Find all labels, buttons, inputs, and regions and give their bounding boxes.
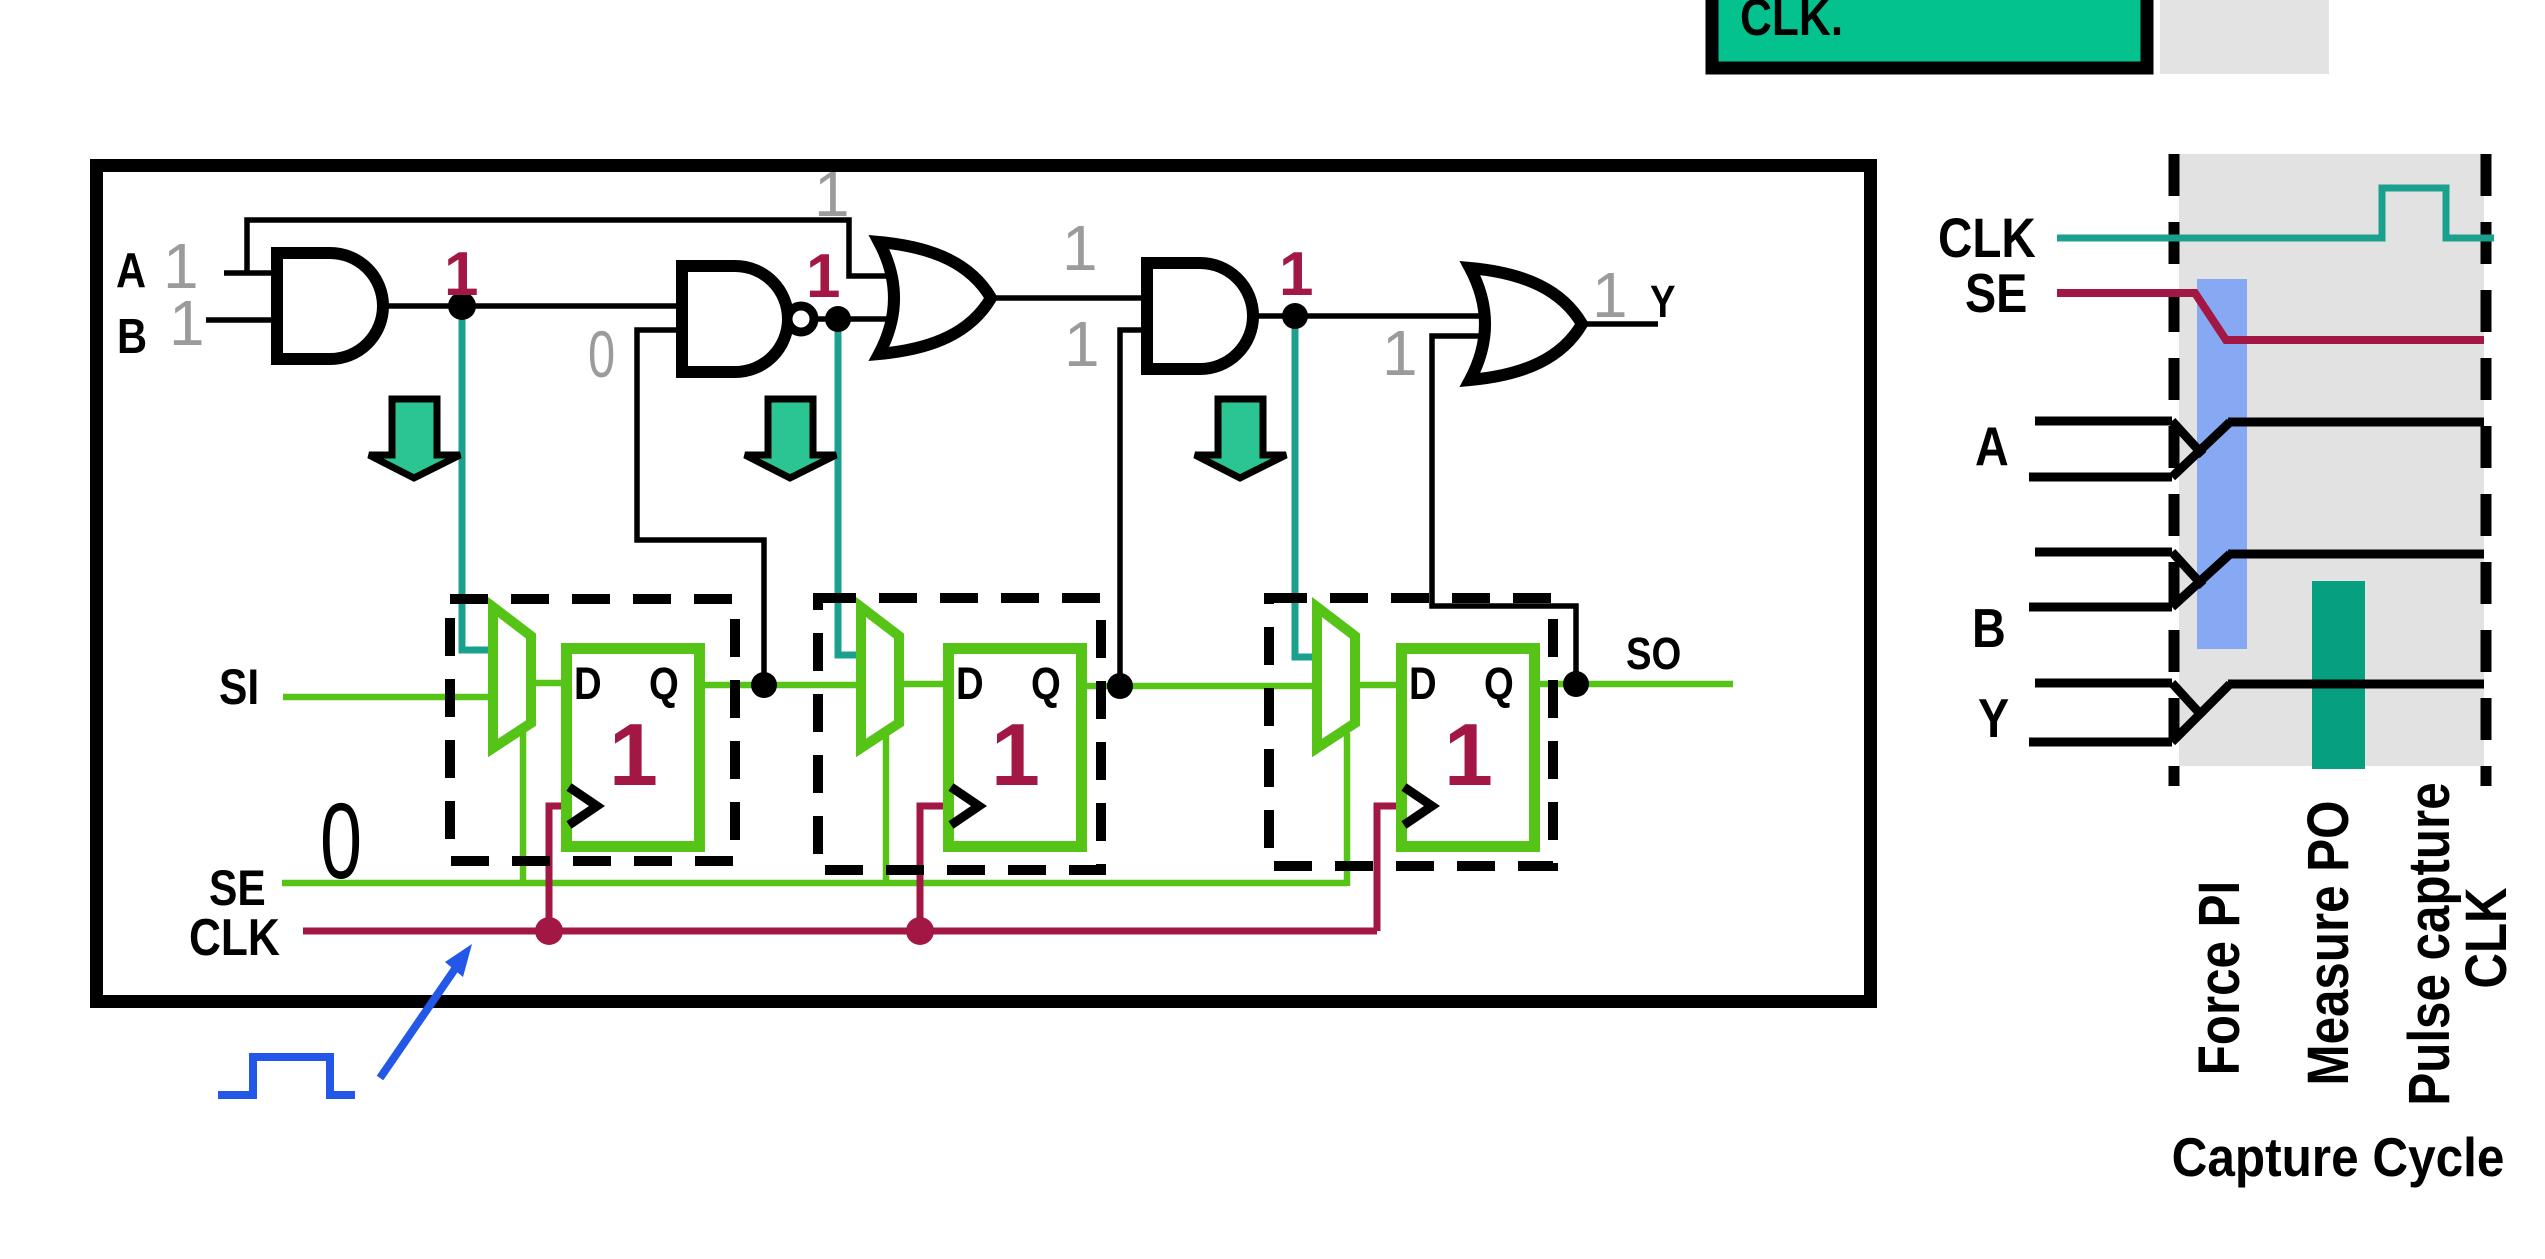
SE waveform (crimson) falling — [2057, 293, 2484, 340]
wire FF3 Q to SO — [1533, 681, 1733, 688]
blue clock pulse glyph — [218, 1057, 355, 1095]
dashed cycle boundary right — [2481, 154, 2492, 786]
Force PI blue highlight bar — [2197, 279, 2247, 649]
svg-text:1: 1 — [1064, 308, 1100, 380]
wire B input — [206, 317, 283, 323]
teal stuck-value wire from AND1 output node to mux1 — [462, 309, 492, 650]
NAND gate G2 output bubble — [788, 306, 814, 332]
wire OR2 lower input feedback riser from SO node — [1432, 336, 1576, 684]
svg-text:B: B — [1972, 597, 2006, 658]
node Q1 — [751, 672, 777, 698]
svg-text:1: 1 — [814, 158, 850, 230]
svg-text:1: 1 — [1279, 240, 1313, 309]
wire CLK branch to FF1 clock — [549, 806, 568, 931]
NAND gate G2 — [682, 266, 788, 372]
svg-text:A: A — [1975, 415, 2009, 476]
AND gate G4 — [1147, 263, 1253, 369]
teal stuck-value wire from AND2 output node to mux3 — [1295, 318, 1320, 657]
flip-flop FF3 with D Q labels, state 1, clock chevron — [1402, 649, 1535, 847]
dashed cycle boundary left — [2169, 154, 2180, 786]
svg-text:0: 0 — [588, 318, 615, 392]
wire FF1 Q to mux2 (node Q1) — [698, 682, 868, 689]
svg-text:1: 1 — [806, 242, 840, 311]
svg-text:1: 1 — [1382, 317, 1418, 389]
CLK waveform (teal) with capture pulse — [2057, 188, 2494, 238]
svg-text:B: B — [117, 309, 147, 364]
wire AND2 output to OR2 upper input — [1247, 313, 1505, 319]
svg-text:SE: SE — [209, 860, 266, 916]
svg-text:1: 1 — [991, 705, 1040, 804]
svg-text:A: A — [116, 243, 146, 298]
teal stuck-value wire from NAND output node to mux2 — [838, 322, 862, 655]
green fault-injection arrow 3 — [1195, 399, 1286, 478]
mux M3 (scan mux) — [1317, 607, 1355, 748]
svg-text:1: 1 — [169, 287, 205, 359]
timing diagram gray panel — [2179, 154, 2484, 766]
dashed scan cell box 3 — [1269, 598, 1553, 866]
OR gate G3 — [879, 242, 991, 354]
svg-text:CLK.: CLK. — [1740, 0, 1843, 47]
wire mux2 select from SE — [883, 733, 890, 883]
node after AND1 output — [448, 292, 476, 320]
main circuit bounding box — [97, 166, 1871, 1002]
Measure PO teal highlight bar — [2312, 581, 2365, 769]
wire FF2 Q to mux3 (node Q2) — [1080, 683, 1326, 690]
wire OR1 output to AND2 input — [991, 295, 1152, 301]
svg-text:1: 1 — [1062, 212, 1098, 284]
wire NAND bubble to OR1 lower input — [815, 316, 916, 322]
flip-flop FF1 with D Q labels, state 1, clock chevron — [567, 649, 700, 847]
wire AND2 lower input feedback riser from Q2 node — [1120, 330, 1152, 686]
wire CLK branch to FF2 clock — [920, 806, 950, 931]
node SO — [1563, 671, 1589, 697]
svg-text:1: 1 — [1592, 259, 1628, 331]
svg-text:Q: Q — [649, 658, 679, 709]
wire SE bus — [282, 880, 1347, 887]
green fault-injection arrow 1 — [369, 399, 460, 478]
dashed scan cell box 1 — [450, 599, 735, 861]
svg-text:Pulse capture: Pulse capture — [2397, 782, 2462, 1105]
wire mux3 output to FF3 D — [1350, 682, 1403, 689]
signal A waveform with transition X — [2029, 421, 2484, 477]
AND gate G1 (inputs A,B) — [277, 253, 383, 359]
signal B waveform with transition X — [2029, 552, 2484, 607]
CLK junction dot 2 — [906, 917, 934, 945]
svg-text:Y: Y — [1978, 687, 2009, 748]
callout box CLK (cropped at top) — [1712, 0, 2147, 68]
svg-text:Capture Cycle: Capture Cycle — [2172, 1128, 2505, 1189]
svg-text:Force PI: Force PI — [2187, 881, 2252, 1075]
signal Y waveform with transition X — [2029, 683, 2484, 742]
node after NAND output — [825, 306, 851, 332]
blue annotation arrow pointing to CLK wire — [380, 944, 472, 1078]
mux M1 (scan mux) — [493, 607, 531, 748]
svg-text:CLK: CLK — [189, 909, 280, 967]
svg-text:1: 1 — [1444, 705, 1493, 804]
svg-text:Q: Q — [1031, 658, 1061, 709]
svg-text:SE: SE — [1965, 262, 2027, 323]
gray box top right (cropped) — [2160, 0, 2329, 74]
svg-text:1: 1 — [444, 240, 478, 309]
rotated label Pulse capture CLK — [2397, 782, 2519, 1105]
wire CLK bus — [303, 928, 1377, 935]
svg-text:Y: Y — [1650, 276, 1676, 327]
svg-text:0: 0 — [320, 781, 362, 901]
CLK junction dot 1 — [535, 917, 563, 945]
wire SI input to mux1 — [283, 694, 500, 701]
svg-text:SO: SO — [1626, 628, 1681, 679]
wire AND1 output to NAND input — [379, 303, 688, 309]
svg-text:Measure PO: Measure PO — [2296, 801, 2361, 1086]
mux M2 (scan mux) — [861, 607, 899, 748]
svg-text:1: 1 — [609, 705, 658, 804]
green fault-injection arrow 2 — [745, 399, 836, 478]
svg-text:CLK: CLK — [1938, 207, 2036, 269]
wire mux1 output to FF1 D — [525, 680, 570, 687]
wire OR2 output to Y — [1582, 321, 1658, 327]
dashed scan cell box 2 — [818, 598, 1101, 870]
wire mux1 select from SE — [520, 728, 527, 883]
wire mux2 output to FF2 D — [893, 681, 950, 688]
wire mux3 select from SE — [1344, 733, 1351, 886]
OR gate G5 (output Y) — [1470, 268, 1582, 380]
svg-text:D: D — [574, 658, 602, 709]
wire feedback from A node to OR1 top input — [247, 220, 916, 276]
svg-text:CLK: CLK — [2454, 887, 2519, 988]
wire A input — [224, 270, 283, 276]
node after AND2 output — [1282, 303, 1308, 329]
wire CLK branch to FF3 clock — [1377, 806, 1403, 931]
flip-flop FF2 with D Q labels, state 1, clock chevron — [949, 649, 1082, 847]
svg-text:D: D — [1409, 658, 1437, 709]
svg-text:D: D — [956, 658, 984, 709]
wire NAND lower input feedback riser from Q1 node — [637, 330, 764, 685]
node Q2 — [1107, 673, 1133, 699]
svg-text:Q: Q — [1484, 658, 1514, 709]
svg-text:SI: SI — [219, 659, 259, 715]
